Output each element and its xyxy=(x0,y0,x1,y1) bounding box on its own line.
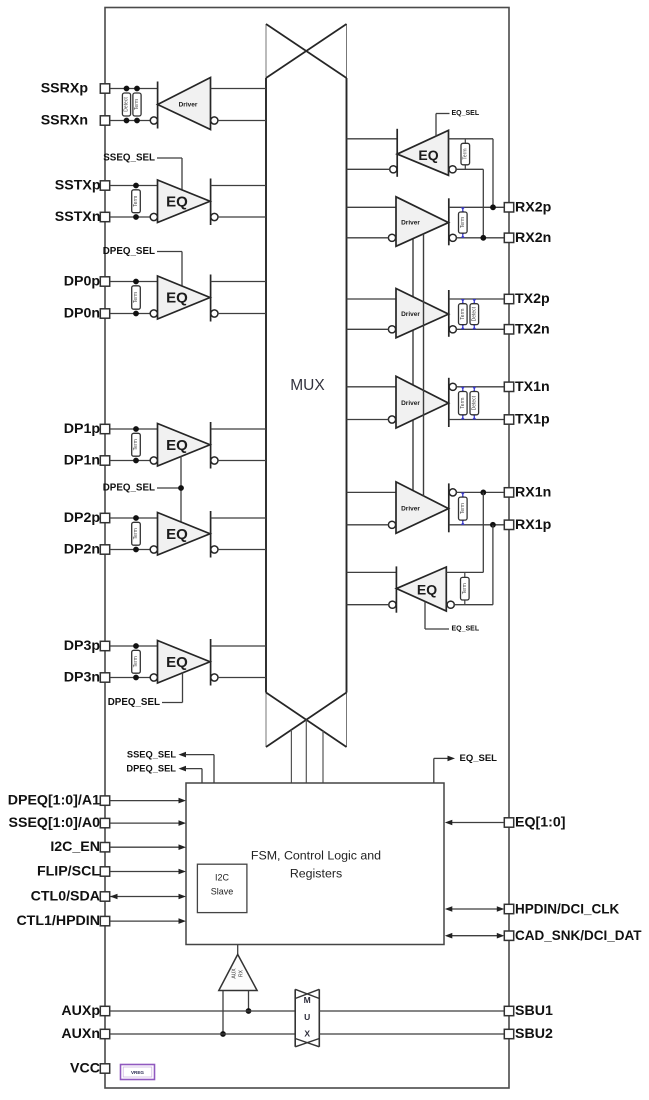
pin DP2n xyxy=(100,545,109,554)
net label DPEQ_SEL (FSM) xyxy=(126,764,176,774)
pin AUXp xyxy=(100,1006,109,1015)
pin VCC xyxy=(100,1064,109,1073)
pin label DP2n xyxy=(64,542,100,558)
pin TX1n xyxy=(504,382,513,391)
arrowhead HPDIN/DCI_CLK into FSM xyxy=(445,906,453,912)
wire HPDIN/DCI_CLK to FSM xyxy=(451,908,498,910)
svg-text:DP0p: DP0p xyxy=(64,274,101,290)
wire DP2p pin to EQ xyxy=(110,517,158,519)
svg-text:AUXn: AUXn xyxy=(61,1026,100,1042)
wire AUX RX leg to AUXn xyxy=(222,991,224,1035)
wire SSRX driver in p from MUX xyxy=(211,88,267,90)
svg-text:Term: Term xyxy=(133,439,139,450)
bubble TX1 out p xyxy=(449,383,456,390)
svg-text:Term: Term xyxy=(460,217,466,228)
svg-text:Term: Term xyxy=(133,292,139,303)
wire MUX to TX2 driver in n xyxy=(347,328,389,330)
arrowhead CTL1/HPDIN into FSM xyxy=(179,918,187,924)
svg-text:SSEQ[1:0]/A0: SSEQ[1:0]/A0 xyxy=(9,815,101,831)
svg-text:Detect: Detect xyxy=(124,97,130,112)
I2C slave label line1 xyxy=(215,873,230,883)
svg-text:DP1n: DP1n xyxy=(64,453,100,469)
junction DP1n term xyxy=(133,458,139,464)
wire DP0 EQ out n to MUX xyxy=(218,313,266,315)
wire SSTX EQ out n to MUX xyxy=(218,216,266,218)
wire CAD_SNK/DCI_DAT to FSM xyxy=(451,935,498,937)
bubble top EQ in n xyxy=(449,166,456,173)
junction DP0n term xyxy=(133,311,139,317)
pin label FLIP/SCL xyxy=(37,864,100,880)
wire EQ_SEL from FSM xyxy=(434,758,448,783)
pin label DP1p xyxy=(64,421,101,437)
resistor Term (bottom EQ) xyxy=(461,573,470,605)
arrowhead CTL0/SDA to pin xyxy=(110,894,118,900)
pin label DP0n xyxy=(64,306,100,322)
wire I2C_EN to FSM xyxy=(110,846,179,848)
regulator VREG xyxy=(121,1065,155,1080)
pin label TX2n xyxy=(515,321,550,337)
wire DPEQ_SEL select DP3 xyxy=(162,672,183,703)
pin label SSTXp xyxy=(55,178,101,194)
pin DP0n xyxy=(100,309,109,318)
svg-text:Term: Term xyxy=(133,196,139,207)
resistor Term (DP2) xyxy=(132,522,141,545)
junction AUXn xyxy=(220,1031,226,1037)
pin CTL1/HPDIN xyxy=(100,916,109,925)
resistor Term (DP0) xyxy=(132,286,141,309)
MUX block U1 outline xyxy=(266,24,347,747)
arrowhead EQ[1:0] into FSM xyxy=(445,820,453,826)
wire RX2 out p to pin xyxy=(449,206,505,208)
net label SSEQ_SEL (FSM) xyxy=(127,750,176,760)
svg-text:RX1n: RX1n xyxy=(515,484,551,500)
pin label RX1p xyxy=(515,517,552,533)
wire DPEQ[1:0]/A1 to FSM xyxy=(110,800,179,802)
amplifier EQ (RX1 path) xyxy=(396,567,446,611)
driver amplifier (SSRX) xyxy=(158,78,211,130)
bubble TX1 in n xyxy=(388,416,395,423)
wire top EQ in p vert xyxy=(492,139,494,208)
arrowhead SSEQ[1:0]/A0 into FSM xyxy=(179,820,187,826)
pin DP1p xyxy=(100,424,109,433)
pin DP3p xyxy=(100,641,109,650)
arrowhead FLIP/SCL into FSM xyxy=(179,869,187,875)
wire top EQ in n horiz xyxy=(456,168,483,170)
pin CTL0/SDA xyxy=(100,892,109,901)
resistor Term (top EQ) xyxy=(461,139,470,170)
FSM label line2 xyxy=(290,867,342,881)
bubble TX2 in n xyxy=(388,326,395,333)
svg-text:HPDIN/DCI_CLK: HPDIN/DCI_CLK xyxy=(515,902,620,917)
wire DPEQ_SEL select DP0 xyxy=(157,252,182,288)
svg-text:DPEQ_SEL: DPEQ_SEL xyxy=(126,764,176,774)
pin label DP3n xyxy=(64,670,100,686)
output bar (DP2) xyxy=(210,511,212,558)
driver amplifier (TX1) xyxy=(396,376,449,428)
pin TX1p xyxy=(504,415,513,424)
amplifier EQ (RX2 path) xyxy=(397,130,448,175)
svg-text:SSTXp: SSTXp xyxy=(55,178,101,194)
pin SSTXn xyxy=(100,212,109,221)
wire EQ_SEL (bottom) xyxy=(425,601,449,629)
driver amplifier (TX2) xyxy=(396,289,449,338)
wire SSRX driver in n from MUX xyxy=(218,120,266,122)
bubble RX1 in n xyxy=(388,521,395,528)
pin SSRXp xyxy=(100,84,109,93)
arrowhead DPEQ[1:0]/A1 into FSM xyxy=(179,798,187,804)
svg-text:X: X xyxy=(304,1029,310,1039)
svg-text:M: M xyxy=(304,995,311,1005)
wire mux select 2 xyxy=(305,720,307,783)
junction DP0p term xyxy=(133,279,139,285)
pin label TX1n xyxy=(515,379,550,395)
svg-text:RX2n: RX2n xyxy=(515,230,551,246)
pin label RX2p xyxy=(515,199,552,215)
pin CAD_SNK/DCI_DAT xyxy=(504,931,513,940)
bubble top EQ out n xyxy=(390,166,397,173)
svg-text:Term: Term xyxy=(462,583,468,594)
svg-text:SSEQ_SEL: SSEQ_SEL xyxy=(127,750,176,760)
wire EQ[1:0] to FSM xyxy=(451,822,504,824)
svg-text:RX: RX xyxy=(239,969,245,977)
wire SSTXn pin to input bubble xyxy=(110,216,151,218)
pin label SSTXn xyxy=(55,209,101,225)
pin label SBU1 xyxy=(515,1003,553,1019)
svg-text:DPEQ_SEL: DPEQ_SEL xyxy=(103,483,155,494)
junction SSRXp detect xyxy=(124,86,130,92)
bubble SSRX in n xyxy=(211,117,218,124)
wire bottom EQ in p horiz xyxy=(446,571,483,573)
output bar (DP1) xyxy=(210,422,212,469)
pin label SSEQ[1:0]/A0 xyxy=(9,815,101,831)
pin label DP1n xyxy=(64,453,100,469)
resistor Term (TX2) xyxy=(459,299,468,329)
svg-text:EQ: EQ xyxy=(166,654,188,671)
bubble DP2 out n xyxy=(211,546,218,553)
pin label CTL0/SDA xyxy=(31,889,100,905)
resistor Term (SSTX) xyxy=(132,190,141,213)
net label DPEQ_SEL (DP0) xyxy=(103,246,155,257)
wire mux select 1 xyxy=(290,730,292,783)
output bar (bottom EQ) xyxy=(395,566,397,612)
wire TX1 out p to pin xyxy=(456,386,504,388)
resistor Term (DP1) xyxy=(132,433,141,456)
MUX block label xyxy=(290,377,325,394)
wire bottom EQ out p to MUX xyxy=(347,571,397,573)
svg-text:Term: Term xyxy=(460,503,466,514)
bubble SSRXn output xyxy=(150,117,157,124)
svg-text:DPEQ_SEL: DPEQ_SEL xyxy=(108,697,160,708)
wire EQ_SEL (top) xyxy=(436,114,450,137)
pin TX2p xyxy=(504,294,513,303)
wire SSRXn pin to out bubble xyxy=(110,120,151,122)
bubble RX1 out p xyxy=(449,489,456,496)
arrowhead DPEQ_SEL xyxy=(179,766,187,772)
pin label EQ[1:0] xyxy=(515,815,565,831)
output bar (top EQ) xyxy=(396,129,398,177)
svg-text:Detect: Detect xyxy=(471,306,477,321)
wire MUX to RX2 driver in p xyxy=(347,206,397,208)
pin SSTXp xyxy=(100,181,109,190)
amplifier EQ (SSTX) xyxy=(158,180,211,223)
wire bottom EQ in n horiz xyxy=(454,604,493,606)
svg-text:EQ_SEL: EQ_SEL xyxy=(452,626,480,633)
pin AUXn xyxy=(100,1029,109,1038)
pin label RX1n xyxy=(515,484,551,500)
wire AUX RX leg to AUXp xyxy=(248,991,250,1012)
net label EQ_SEL (top) xyxy=(452,110,480,117)
svg-text:SBU2: SBU2 xyxy=(515,1026,553,1042)
wire TX2 out n to pin xyxy=(456,328,504,330)
net label DPEQ_SEL (DP1/DP2) xyxy=(103,483,155,494)
wire DP1n pin to input bubble xyxy=(110,460,151,462)
AUX MUX letter U xyxy=(304,1012,310,1022)
pin SBU1 xyxy=(504,1006,513,1015)
arrowhead SSEQ_SEL xyxy=(179,752,187,758)
amplifier AUX RX xyxy=(219,954,257,990)
I2C slave label line2 xyxy=(211,887,234,897)
svg-text:RX2p: RX2p xyxy=(515,199,552,215)
junction DP2p term xyxy=(133,515,139,521)
wire bottom EQ in p vert xyxy=(482,492,484,572)
wire CTL1/HPDIN to FSM xyxy=(110,920,179,922)
wire mux select 3 xyxy=(322,731,324,783)
wire TX2 out p to pin xyxy=(449,298,505,300)
detector Detect (TX2) xyxy=(470,299,479,329)
pin label SBU2 xyxy=(515,1026,553,1042)
wire SSEQ_SEL select xyxy=(157,158,182,191)
pin label DP0p xyxy=(64,274,101,290)
svg-text:EQ: EQ xyxy=(166,526,188,543)
wire DP1p pin to EQ xyxy=(110,428,158,430)
wire TX1 out n to pin xyxy=(449,419,505,421)
bubble bottom EQ in n xyxy=(447,601,454,608)
wire aux mux to SBU1 xyxy=(319,1010,504,1012)
pin label AUXn xyxy=(61,1026,100,1042)
driver amplifier (RX1) xyxy=(396,482,449,533)
wire MUX to RX1 driver in n xyxy=(347,524,389,526)
svg-text:Driver: Driver xyxy=(401,220,420,227)
junction SSRXn term xyxy=(134,118,140,124)
resistor Term (RX1) xyxy=(459,493,468,525)
output bar (RX2 driver) xyxy=(448,198,450,245)
svg-text:EQ: EQ xyxy=(418,147,438,163)
pin I2C_EN xyxy=(100,843,109,852)
svg-text:Slave: Slave xyxy=(211,887,234,897)
net label EQ_SEL (bottom) xyxy=(452,626,480,633)
bubble TX2 out n xyxy=(449,326,456,333)
bubble DP3n input xyxy=(150,674,157,681)
pin RX1n xyxy=(504,488,513,497)
output bar (SSRX driver) xyxy=(157,82,159,129)
bubble SSTXn input xyxy=(150,213,157,220)
wire MUX to TX2 driver in p xyxy=(347,298,397,300)
junction DP2n term xyxy=(133,547,139,553)
pin label TX2p xyxy=(515,291,550,307)
pin DP3n xyxy=(100,673,109,682)
svg-text:EQ: EQ xyxy=(166,193,188,210)
svg-text:RX1p: RX1p xyxy=(515,517,552,533)
detector Detect (TX1) xyxy=(470,387,479,420)
junction RX1 p xyxy=(480,490,486,496)
svg-text:Driver: Driver xyxy=(401,506,420,513)
svg-text:I2C_EN: I2C_EN xyxy=(50,839,100,855)
svg-text:Term: Term xyxy=(462,148,468,159)
svg-text:EQ[1:0]: EQ[1:0] xyxy=(515,815,565,831)
bubble DP1 out n xyxy=(211,457,218,464)
driver amplifier (RX2) xyxy=(396,197,449,247)
junction SSTXn term xyxy=(133,214,139,220)
output bar (RX1 driver) xyxy=(448,483,450,532)
wire SSTX EQ out p to MUX xyxy=(211,185,266,187)
svg-text:DPEQ[1:0]/A1: DPEQ[1:0]/A1 xyxy=(8,793,100,809)
output bar (TX1 driver) xyxy=(448,378,450,427)
wire FLIP/SCL to FSM xyxy=(110,871,179,873)
svg-text:TX2n: TX2n xyxy=(515,321,550,337)
pin label TX1p xyxy=(515,412,550,428)
svg-text:DP1p: DP1p xyxy=(64,421,101,437)
arrowhead CAD_SNK/DCI_DAT to pin xyxy=(497,933,505,939)
wire top EQ out n to MUX xyxy=(347,168,391,170)
svg-text:SSEQ_SEL: SSEQ_SEL xyxy=(103,153,155,164)
resistor Term (RX2) xyxy=(459,207,468,237)
wire DP3 EQ out p to MUX xyxy=(211,645,266,647)
svg-text:Registers: Registers xyxy=(290,867,342,881)
pin SBU2 xyxy=(504,1029,513,1038)
pin DP0p xyxy=(100,277,109,286)
svg-text:EQ: EQ xyxy=(166,290,188,307)
pin label SSRXn xyxy=(41,113,88,129)
junction DP3p term xyxy=(133,643,139,649)
pin RX2n xyxy=(504,233,513,242)
svg-text:SSTXn: SSTXn xyxy=(55,209,101,225)
bubble DP1n input xyxy=(150,457,157,464)
svg-text:FLIP/SCL: FLIP/SCL xyxy=(37,864,100,880)
svg-text:Term: Term xyxy=(460,398,466,409)
svg-text:EQ: EQ xyxy=(166,437,188,454)
wire aux mux to SBU2 xyxy=(319,1033,504,1035)
detector Detect (SSRX) xyxy=(122,93,130,116)
wire MUX to RX2 driver in n xyxy=(347,237,389,239)
svg-text:SSRXp: SSRXp xyxy=(41,81,89,97)
FSM label line1 xyxy=(251,849,381,863)
svg-text:SBU1: SBU1 xyxy=(515,1003,553,1019)
svg-text:DPEQ_SEL: DPEQ_SEL xyxy=(103,246,155,257)
wire top EQ in n vert xyxy=(482,169,484,238)
svg-text:AUXp: AUXp xyxy=(61,1003,100,1019)
pin label SSRXp xyxy=(41,81,89,97)
output bar (TX2 driver) xyxy=(448,290,450,337)
bubble DP3 out n xyxy=(211,674,218,681)
wire DP2 EQ out n to MUX xyxy=(218,549,266,551)
bubble RX2 out n xyxy=(449,234,456,241)
wire DP2 EQ out p to MUX xyxy=(211,517,266,519)
wire MUX to TX1 driver in p xyxy=(347,386,397,388)
svg-text:EQ_SEL: EQ_SEL xyxy=(460,753,498,764)
wire bottom EQ out n to MUX xyxy=(347,604,390,606)
bubble DP0 out n xyxy=(211,310,218,317)
svg-text:CTL0/SDA: CTL0/SDA xyxy=(31,889,100,905)
amplifier EQ (DP2) xyxy=(158,513,211,556)
pin DP1n xyxy=(100,456,109,465)
pin TX2n xyxy=(504,325,513,334)
wire AUXp to aux mux xyxy=(110,1010,296,1012)
svg-text:CAD_SNK/DCI_DAT: CAD_SNK/DCI_DAT xyxy=(515,928,642,943)
svg-text:TX1p: TX1p xyxy=(515,412,550,428)
svg-text:DP2n: DP2n xyxy=(64,542,100,558)
svg-text:Driver: Driver xyxy=(401,311,420,318)
pin DP2p xyxy=(100,513,109,522)
amplifier EQ (DP1) xyxy=(158,424,211,467)
wire CTL0/SDA to FSM xyxy=(110,896,179,898)
wire driver control B xyxy=(423,234,425,497)
pin SSRXn xyxy=(100,116,109,125)
svg-text:MUX: MUX xyxy=(290,377,325,394)
svg-text:EQ: EQ xyxy=(417,581,437,597)
pin label DPEQ[1:0]/A1 xyxy=(8,793,100,809)
junction RX2 p xyxy=(490,204,496,210)
pin FLIP/SCL xyxy=(100,867,109,876)
FSM control block U2 xyxy=(186,783,444,945)
resistor Term (SSRX) xyxy=(133,93,141,116)
chip boundary xyxy=(105,8,509,1089)
output bar (SSTX) xyxy=(210,179,212,226)
svg-text:DP3n: DP3n xyxy=(64,670,100,686)
pin label DP3p xyxy=(64,638,101,654)
svg-text:Driver: Driver xyxy=(401,400,420,407)
svg-text:EQ_SEL: EQ_SEL xyxy=(452,110,480,117)
junction SSRXn detect xyxy=(124,118,130,124)
svg-text:DP3p: DP3p xyxy=(64,638,101,654)
arrowhead EQ_SEL xyxy=(448,756,456,762)
svg-text:Term: Term xyxy=(133,656,139,667)
pin label VCC xyxy=(70,1061,100,1077)
svg-text:Term: Term xyxy=(460,309,466,320)
wire DPEQ_SEL shared select xyxy=(157,456,181,524)
wire FSM to AUX RX xyxy=(237,945,239,955)
bubble DP0n input xyxy=(150,310,157,317)
svg-text:DP2p: DP2p xyxy=(64,510,101,526)
wire DP1 EQ out p to MUX xyxy=(211,428,266,430)
junction DP3n term xyxy=(133,675,139,681)
output bar (DP0) xyxy=(210,275,212,322)
wire AUXn to aux mux xyxy=(110,1033,296,1035)
wire DP0n pin to input bubble xyxy=(110,313,151,315)
wire SSRXp pin to driver out xyxy=(110,88,158,90)
wire MUX to RX1 driver in p xyxy=(347,491,397,493)
amplifier EQ (DP0) xyxy=(158,276,211,319)
junction SSRXp term xyxy=(134,86,140,92)
net label DPEQ_SEL (DP3) xyxy=(108,697,160,708)
svg-text:TX1n: TX1n xyxy=(515,379,550,395)
pin EQ[1:0] xyxy=(504,818,513,827)
pin label CAD_SNK/DCI_DAT xyxy=(515,928,642,943)
bubble SSTX out n xyxy=(211,213,218,220)
pin RX2p xyxy=(504,203,513,212)
pin label DP2p xyxy=(64,510,101,526)
output bar (DP3) xyxy=(210,639,212,686)
bubble RX2 in n xyxy=(388,234,395,241)
arrowhead HPDIN/DCI_CLK to pin xyxy=(497,906,505,912)
wire DP0 EQ out p to MUX xyxy=(211,281,266,283)
svg-text:AUX: AUX xyxy=(232,968,238,979)
junction DP1p term xyxy=(133,426,139,432)
wire RX1 out p to pin xyxy=(456,491,504,493)
wire DP0p pin to EQ xyxy=(110,281,158,283)
junction SSTXp term xyxy=(133,183,139,189)
net label EQ_SEL (FSM) xyxy=(460,753,498,764)
wire DP3p pin to EQ xyxy=(110,645,158,647)
